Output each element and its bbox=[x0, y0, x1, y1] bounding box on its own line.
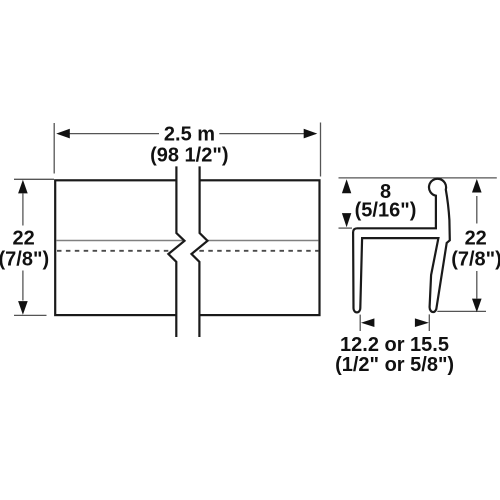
svg-text:2.5 m: 2.5 m bbox=[164, 124, 215, 146]
svg-text:(7/8"): (7/8") bbox=[0, 248, 49, 270]
svg-text:12.2 or 15.5: 12.2 or 15.5 bbox=[340, 334, 449, 356]
svg-text:(1/2" or 5/8"): (1/2" or 5/8") bbox=[335, 354, 454, 376]
svg-text:(98 1/2"): (98 1/2") bbox=[150, 145, 228, 167]
svg-text:(7/8"): (7/8") bbox=[451, 248, 500, 270]
svg-text:22: 22 bbox=[12, 227, 34, 249]
svg-text:22: 22 bbox=[465, 227, 487, 249]
svg-text:(5/16"): (5/16") bbox=[355, 200, 417, 222]
